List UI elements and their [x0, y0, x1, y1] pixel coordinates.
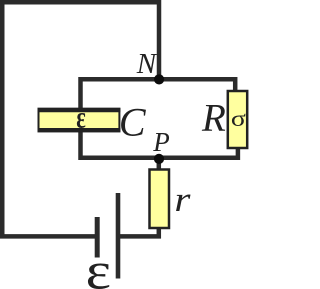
- svg-text:C: C: [119, 99, 147, 144]
- node P junction dot: [154, 154, 164, 164]
- svg-text:ε: ε: [86, 242, 111, 289]
- svg-text:N: N: [136, 48, 158, 80]
- capacitor C top plate: [38, 108, 121, 112]
- wire outer loop (top, left, bottom-left): [2, 2, 159, 236]
- svg-text:r: r: [174, 181, 190, 219]
- battery long plate: [116, 193, 121, 279]
- svg-text:P: P: [152, 127, 170, 157]
- label sigma (conductivity): [231, 105, 246, 132]
- wire inner loop: [81, 79, 238, 158]
- node N junction dot: [154, 74, 164, 84]
- capacitor C bottom plate: [38, 128, 121, 132]
- label r: [174, 181, 190, 219]
- svg-text:R: R: [201, 96, 226, 139]
- resistor r body: [150, 170, 170, 229]
- svg-text:σ: σ: [231, 105, 246, 132]
- label EMF script epsilon: [86, 242, 111, 289]
- resistor R body: [228, 91, 247, 148]
- wire node P to resistor r: [157, 159, 162, 171]
- battery short plate: [95, 217, 100, 258]
- wire battery to r: [119, 228, 159, 236]
- capacitor C body: [39, 109, 120, 131]
- svg-text:ε: ε: [76, 100, 86, 134]
- label epsilon (dielectric): [76, 100, 86, 134]
